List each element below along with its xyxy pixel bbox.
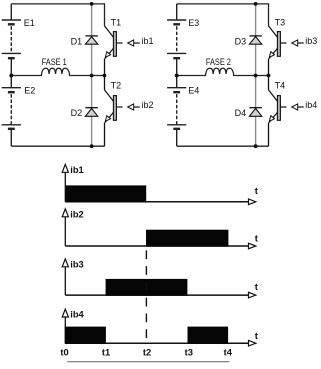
svg-text:FASE 2: FASE 2 xyxy=(206,57,231,67)
svg-text:ib2: ib2 xyxy=(142,100,154,110)
svg-text:T1: T1 xyxy=(111,17,122,27)
svg-text:D4: D4 xyxy=(235,108,247,118)
svg-text:t1: t1 xyxy=(102,346,110,357)
svg-text:T2: T2 xyxy=(111,80,122,90)
svg-text:E1: E1 xyxy=(24,18,35,28)
svg-text:D2: D2 xyxy=(71,108,83,118)
svg-text:ib1: ib1 xyxy=(70,165,83,175)
svg-text:T4: T4 xyxy=(275,80,286,90)
svg-text:E3: E3 xyxy=(188,18,199,28)
svg-text:E4: E4 xyxy=(188,86,199,96)
svg-text:t0: t0 xyxy=(60,346,68,357)
svg-text:ib4: ib4 xyxy=(70,310,84,320)
svg-text:t4: t4 xyxy=(224,346,233,357)
svg-text:FASE 1: FASE 1 xyxy=(42,57,67,67)
svg-text:ib1: ib1 xyxy=(142,36,154,46)
svg-text:D1: D1 xyxy=(71,37,83,47)
svg-text:E2: E2 xyxy=(24,86,35,96)
svg-text:ib4: ib4 xyxy=(305,100,317,110)
svg-text:D3: D3 xyxy=(235,37,247,47)
svg-text:ib3: ib3 xyxy=(70,260,83,270)
svg-text:ib2: ib2 xyxy=(70,210,83,220)
svg-text:t2: t2 xyxy=(143,346,151,357)
svg-text:ib3: ib3 xyxy=(305,36,317,46)
svg-text:t3: t3 xyxy=(185,346,193,357)
svg-text:T3: T3 xyxy=(275,17,286,27)
